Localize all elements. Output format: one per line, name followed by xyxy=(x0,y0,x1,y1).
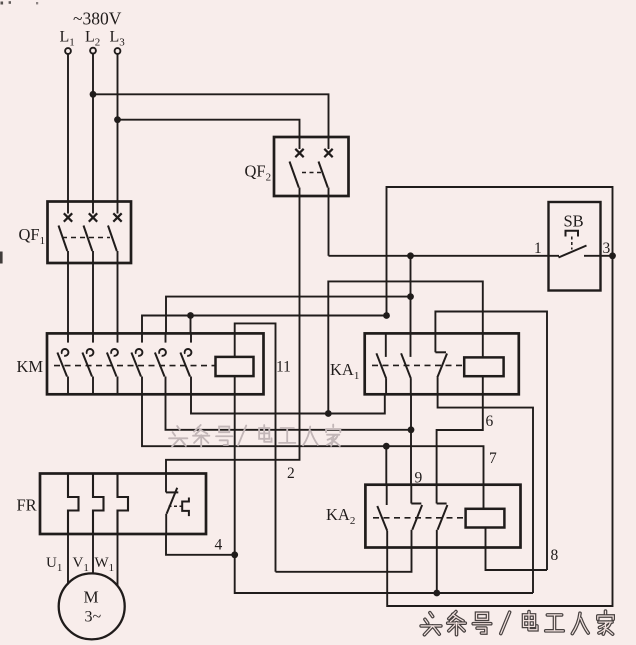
breaker QF1 linkage dashed xyxy=(62,237,110,239)
wire FR to motor W1 xyxy=(117,534,119,586)
contactor KM linkage dashed xyxy=(54,365,216,367)
wire top rail from SB pin3 up and left xyxy=(387,187,613,316)
wire down to KA2 contact1 top xyxy=(385,446,387,485)
node junction KA1 coil loop tap xyxy=(325,410,332,417)
coil KA2 xyxy=(466,509,505,528)
node junction L2 tap xyxy=(90,91,97,98)
contactor KM main contact 3 xyxy=(117,333,119,342)
button SB box xyxy=(549,202,601,291)
node junction bottom rail KA2 contact3 xyxy=(433,590,440,597)
svg-text:7: 7 xyxy=(489,450,497,467)
wire QF2 right pole down to SB line xyxy=(328,196,330,256)
contactor KM main contact 5 xyxy=(165,333,167,342)
svg-text:FR: FR xyxy=(17,496,37,515)
node junction KA2 contact1 riser xyxy=(383,443,390,450)
node junction wire4 KM coil xyxy=(231,551,238,558)
scan noise left edge tick xyxy=(0,252,3,264)
wire L2 drop to QF1 xyxy=(92,54,94,202)
wire bottom rail 4 net xyxy=(235,555,533,593)
wire KM contact6 to KA1 contact1 bottom xyxy=(191,394,385,413)
svg-text:KM: KM xyxy=(17,357,44,376)
breaker QF1 box xyxy=(48,202,132,264)
relay KA1 NO contact 2 xyxy=(410,333,412,357)
svg-text:M: M xyxy=(84,588,99,607)
wire 6 KA1 coil bottom to KA2 contact3 xyxy=(437,376,483,485)
contactor KM main contact 2 xyxy=(92,333,94,342)
wire KA2 contact3 bottom to bottom rail xyxy=(436,548,438,594)
relay KA2 NC contact 3 xyxy=(436,485,438,504)
relay FR heater element 2 xyxy=(93,474,104,535)
relay FR trip actuator xyxy=(182,498,189,517)
relay FR heater element 3 xyxy=(118,474,129,535)
wire KA2 contact2 bottom to KM coil loop xyxy=(276,548,412,572)
node junction KA2 contact2 riser xyxy=(408,426,415,433)
watermark bottom 头条号 / 电工人家 xyxy=(421,611,613,635)
svg-text:~380V: ~380V xyxy=(73,9,122,29)
svg-text:3~: 3~ xyxy=(85,609,102,626)
wire SB line down to KA1 contact 2 xyxy=(410,256,412,334)
relay KA1 NO contact 1 xyxy=(385,333,387,357)
node junction at SB pin 3 rail xyxy=(609,252,616,259)
svg-text:1: 1 xyxy=(534,240,542,257)
svg-text:3: 3 xyxy=(603,240,611,257)
wire L2 tap to QF2 right pole xyxy=(93,94,329,137)
wire KM coil top loop to 11 xyxy=(235,323,276,571)
relay KA2 linkage dashed xyxy=(373,517,466,519)
breaker QF1 pole 3 xyxy=(117,202,119,214)
wire right rail SB pin3 down to bottom xyxy=(387,256,612,606)
wire L3 drop to QF1 xyxy=(117,54,119,202)
breaker QF1 pole 2 xyxy=(92,202,94,214)
wire 8 KA2 coil bottom to right riser xyxy=(486,528,548,571)
scan noise top-left xyxy=(1,2,4,5)
node junction on SB line xyxy=(407,252,414,259)
wire KM coil bottom to wire 4 xyxy=(234,376,236,555)
contactor KM main contact 1 xyxy=(67,333,69,342)
contactor KM main contact 6 xyxy=(190,333,192,342)
wire 4 FR contact bottom xyxy=(166,534,235,555)
wire KA1 contact3 bottom to bottom rail xyxy=(438,394,533,593)
wire link down to KM contact6 top xyxy=(190,316,192,334)
wire 2 QF2 left pole down to FR contact xyxy=(166,196,300,474)
relay KA1 box xyxy=(365,333,519,394)
node junction L3 tap xyxy=(114,116,121,123)
button SB plunger xyxy=(566,231,579,237)
svg-text:SB: SB xyxy=(564,212,584,231)
svg-text:9: 9 xyxy=(415,470,423,487)
svg-text:4: 4 xyxy=(215,537,223,554)
wire SB line to pin 1 and from pin 3 to right rail xyxy=(329,255,560,257)
breaker QF2 linkage dashed xyxy=(302,172,322,174)
wire KM contact5 to KA1 contact2 bottom xyxy=(166,394,412,430)
wire KA1 contact2 bottom through to KA2 contact2 xyxy=(410,394,412,484)
contactor KM box xyxy=(47,333,264,394)
breaker QF1 pole 1 xyxy=(67,202,69,214)
node junction at KA1 contact1 top riser xyxy=(383,312,390,319)
watermark faint center 头条号/电工人家 xyxy=(169,425,340,447)
relay FR box xyxy=(40,474,206,535)
relay FR trip linkage dashed xyxy=(169,505,183,507)
breaker QF2 pole 1 xyxy=(299,137,301,149)
relay KA1 NC contact 3 xyxy=(434,333,436,352)
node junction KA1 contact2 top xyxy=(407,293,414,300)
relay FR NC contact xyxy=(165,474,167,493)
coil KA1 xyxy=(464,357,503,376)
relay KA2 NC contact 2 xyxy=(410,485,412,504)
wire KA1 coil top loop xyxy=(328,281,483,413)
wire KA1 contact3 top to right rail xyxy=(435,312,547,571)
relay KA1 linkage dashed xyxy=(372,364,464,366)
wire KM contact4 to KA2 coil top (7) xyxy=(142,394,484,509)
wire L2 QF1 to KM xyxy=(92,263,94,333)
wire FR to motor V1 xyxy=(92,534,94,574)
relay FR heater element 1 xyxy=(68,474,79,535)
relay KA2 NO contact 1 xyxy=(386,485,388,505)
relay KA2 box xyxy=(365,485,520,548)
wire L3 tap to QF2 left pole xyxy=(118,120,300,137)
button SB blade xyxy=(559,246,587,258)
breaker QF2 box xyxy=(274,137,349,196)
coil KM xyxy=(216,357,254,376)
wire FR to motor U1 xyxy=(67,534,69,585)
breaker QF2 pole 2 xyxy=(328,137,330,149)
svg-text:11: 11 xyxy=(276,359,291,376)
svg-text:6: 6 xyxy=(486,413,494,430)
contactor KM main contact 4 xyxy=(141,333,143,342)
svg-text:8: 8 xyxy=(551,547,559,564)
wire KM contact4 top link xyxy=(142,316,387,334)
wire L1 drop to QF1 xyxy=(67,54,69,202)
motor M circle xyxy=(59,573,125,639)
node junction on link to KM contact6 xyxy=(187,312,194,319)
wire L3 QF1 to KM xyxy=(117,263,119,333)
wire L1 QF1 to KM xyxy=(67,263,69,333)
svg-text:2: 2 xyxy=(287,465,295,482)
wire KM contact5 top link xyxy=(166,297,411,334)
